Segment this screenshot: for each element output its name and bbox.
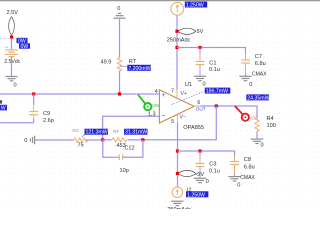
ground 0 below R4	[251, 139, 264, 149]
probe marker VDB output (red)	[235, 106, 258, 121]
ground 0 below C3	[194, 178, 209, 185]
power label 186.7mW leader	[171, 91, 206, 105]
power label 121.3mW	[85, 129, 109, 136]
svg-text:49.9: 49.9	[101, 60, 112, 66]
svg-text:4: 4	[155, 89, 158, 95]
power label 1.250W (I2)	[186, 191, 208, 198]
power label 121.3mW leader	[82, 134, 87, 137]
junction C1 top	[198, 46, 201, 49]
svg-text:RG: RG	[72, 128, 79, 133]
svg-text:RF: RF	[113, 129, 119, 134]
junction RT / input row	[118, 92, 121, 95]
svg-text:10p: 10p	[120, 168, 129, 174]
junction C3 top	[198, 149, 201, 152]
svg-text:0: 0	[117, 6, 120, 12]
svg-text:7: 7	[171, 88, 174, 94]
resistor R4 100	[255, 116, 276, 139]
svg-text:R4: R4	[267, 116, 274, 122]
resistor RT 49.9	[101, 58, 137, 71]
svg-text:V+: V+	[181, 91, 187, 97]
ground 0 below C8	[228, 177, 240, 189]
svg-text:W: W	[1, 106, 6, 112]
svg-text:0.1u: 0.1u	[209, 67, 220, 73]
capacitor C9 2.6p	[29, 94, 54, 124]
svg-text:0: 0	[203, 82, 206, 88]
wire pin7 V+ rail	[176, 15, 178, 98]
voltage source V1 2.5V	[7, 10, 19, 37]
capacitor C3 0.1u	[196, 151, 220, 178]
svg-text:100: 100	[267, 123, 276, 129]
junction -5V row left	[176, 149, 179, 152]
wire output row	[201, 106, 258, 118]
power label 186.7mW	[205, 88, 231, 95]
svg-text:C9: C9	[43, 111, 50, 117]
power label fragment W at left edge	[0, 105, 7, 112]
resistor RG 75	[72, 128, 102, 148]
wire input row	[0, 93, 159, 95]
resistor RF 453	[103, 129, 143, 149]
ground 0 below C7	[239, 76, 252, 88]
svg-text:0: 0	[249, 82, 252, 88]
power label 0W (V2)	[19, 43, 30, 50]
svg-text:7.200mW: 7.200mW	[128, 66, 150, 72]
power label 7.200mW	[127, 65, 151, 72]
svg-text:C12: C12	[124, 146, 134, 152]
svg-text:C8: C8	[244, 157, 251, 163]
junction -5V bubble	[176, 172, 179, 175]
svg-text:6: 6	[197, 100, 200, 106]
svg-text:−: −	[162, 112, 166, 119]
svg-text:C1: C1	[209, 61, 216, 67]
rotated ground 0 at RG input	[24, 136, 34, 145]
svg-text:0: 0	[261, 143, 264, 149]
wire inverting input	[103, 116, 160, 140]
svg-text:2.5V: 2.5V	[7, 10, 19, 16]
wire V2 to ground	[11, 57, 13, 76]
current source I2 250mAdc	[167, 175, 191, 213]
output pin stub	[194, 105, 200, 107]
wire RG row	[35, 139, 74, 141]
svg-text:0: 0	[24, 138, 27, 144]
op-amp U1 OPA855	[155, 82, 206, 131]
svg-text:0: 0	[237, 183, 240, 189]
svg-text:1.250W: 1.250W	[186, 3, 204, 9]
capacitor C8 6.8u	[230, 157, 255, 181]
svg-text:-5V: -5V	[195, 172, 204, 178]
junction supply row top left	[175, 46, 178, 49]
svg-text:OPA855: OPA855	[183, 125, 204, 131]
junction RF right	[141, 138, 144, 141]
dc source V2 2.5Vdc battery	[4, 39, 21, 65]
wire bottom decoupling row	[178, 151, 235, 162]
svg-text:6.8u: 6.8u	[255, 61, 266, 67]
junction 5V bubble	[175, 30, 178, 33]
svg-text:U1: U1	[185, 82, 192, 88]
svg-text:0.1u: 0.1u	[209, 168, 220, 174]
capacitor C12 10p loop	[103, 140, 143, 174]
svg-text:0: 0	[14, 83, 17, 89]
ground 0 below C1	[194, 76, 206, 87]
svg-text:186.7mW: 186.7mW	[206, 89, 228, 95]
current source I1 250mAdc	[167, 2, 191, 43]
wire top decoupling row	[177, 48, 246, 60]
svg-text:2.5Vdc: 2.5Vdc	[4, 59, 21, 65]
power label 24.35mW	[246, 94, 269, 101]
svg-text:C3: C3	[209, 162, 216, 168]
net bubble 5V	[178, 28, 204, 35]
svg-text:75: 75	[78, 143, 84, 149]
svg-text:250mAdc: 250mAdc	[167, 207, 191, 209]
svg-text:C7: C7	[255, 54, 262, 60]
svg-text:250mAdc: 250mAdc	[167, 37, 191, 43]
junction inverting node	[101, 138, 104, 141]
svg-text:0: 0	[206, 179, 209, 185]
wire pin5 V- rail	[177, 115, 179, 174]
svg-text:0W: 0W	[21, 44, 29, 50]
svg-text:31.31mW: 31.31mW	[125, 130, 147, 136]
ground 0 below I2	[171, 201, 183, 205]
top window border	[0, 1, 320, 2]
svg-text:5V: 5V	[197, 29, 204, 35]
svg-text:RT: RT	[129, 59, 137, 65]
junction C9 top	[32, 92, 35, 95]
svg-text:CMAX: CMAX	[252, 71, 267, 77]
wire RT rail upper	[119, 19, 121, 58]
svg-text:OUT: OUT	[196, 107, 206, 112]
wire RT rail lower	[119, 71, 121, 94]
svg-text:+: +	[162, 92, 166, 99]
svg-text:2.6p: 2.6p	[43, 118, 54, 124]
dashed marker line	[0, 38, 16, 40]
label 1,3	[148, 111, 156, 117]
power label 7.200mW leader	[120, 66, 128, 67]
cut label fragment at left edge	[0, 100, 2, 103]
capacitor C1 0.1u	[196, 48, 220, 77]
svg-text:24.35mW: 24.35mW	[247, 95, 269, 101]
junction output node	[215, 104, 218, 107]
svg-text:CMAX: CMAX	[240, 175, 255, 181]
svg-text:6.8u: 6.8u	[244, 164, 255, 170]
power label 0W (V1)	[17, 38, 28, 45]
svg-text:1.250W: 1.250W	[187, 192, 205, 198]
svg-text:5: 5	[171, 119, 174, 125]
junction V1/V2 node	[10, 36, 13, 39]
svg-text:121.3mW: 121.3mW	[86, 130, 108, 136]
probe marker VDB input (green)	[138, 95, 161, 110]
net bubble -5V	[178, 170, 204, 178]
power label 1.250W (I1)	[185, 2, 207, 9]
wire feedback loop	[143, 106, 216, 140]
ground 0 top of RT rail	[114, 6, 126, 18]
svg-text:V−: V−	[180, 114, 186, 120]
power label 31.31mW	[124, 129, 148, 136]
ground 0 below V2	[6, 77, 18, 89]
wire C9 bottom to left edge	[0, 122, 34, 124]
capacitor C7 6.8u	[241, 54, 267, 77]
